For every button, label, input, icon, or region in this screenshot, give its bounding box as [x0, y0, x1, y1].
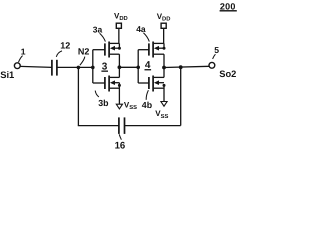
- wire: inverter 3 output to inverter 4 gate line: [119, 66, 138, 68]
- label 16: [115, 134, 126, 151]
- svg-text:N2: N2: [78, 47, 90, 57]
- label 5: [213, 45, 220, 59]
- transistor 3a (PMOS): [105, 42, 121, 58]
- transistor 3b (NMOS): [105, 76, 121, 92]
- svg-text:3a: 3a: [93, 24, 103, 34]
- wire: feedback left vertical (from N2 down): [77, 67, 79, 125]
- terminal 5 (So2 output circle): [209, 62, 215, 68]
- wire: feedback bottom right segment: [125, 125, 181, 127]
- label 4b: [142, 90, 153, 110]
- node N2 (junction dot, feedback tap): [77, 66, 81, 70]
- node: output feedback tap: [179, 65, 183, 69]
- wire: inverter 4 output to terminal 5: [164, 66, 209, 67]
- label 200: [220, 2, 237, 12]
- inverter 4 output node: [162, 54, 166, 77]
- transistor 4b (NMOS): [149, 76, 166, 92]
- svg-text:12: 12: [60, 41, 70, 51]
- VSS supply (inverter 3): [116, 83, 137, 112]
- svg-text:VSS: VSS: [155, 109, 168, 120]
- svg-text:VSS: VSS: [124, 101, 137, 112]
- label 4a: [136, 24, 149, 42]
- node: gate line junction on input wire: [91, 66, 95, 70]
- svg-text:So2: So2: [219, 69, 236, 79]
- svg-text:4b: 4b: [142, 100, 153, 110]
- svg-text:Si1: Si1: [0, 69, 14, 80]
- capacitor C12: [52, 60, 57, 76]
- VDD supply (inverter 4): [157, 12, 171, 48]
- svg-text:16: 16: [115, 141, 126, 152]
- inverter 4 gate line: [138, 50, 149, 83]
- svg-text:4a: 4a: [136, 24, 146, 34]
- label 1: [19, 46, 26, 62]
- label N2: [78, 47, 90, 66]
- node: inverter 4 gate junction: [136, 66, 140, 70]
- terminal 1 (Si1 input circle): [14, 63, 20, 69]
- wire: feedback bottom left segment: [78, 125, 119, 127]
- svg-text:5: 5: [214, 45, 219, 55]
- label 3a: [93, 24, 106, 41]
- wire: capacitor 12 to node N2 and gate line: [57, 66, 93, 68]
- label 12: [56, 41, 70, 57]
- label 4 (inverter 4): [145, 60, 152, 71]
- capacitor C16: [119, 117, 125, 133]
- wire: feedback right vertical (up to output): [180, 67, 182, 125]
- VSS supply (inverter 4): [155, 85, 168, 119]
- VDD supply (inverter 3): [114, 11, 128, 48]
- transistor 4a (PMOS): [149, 42, 166, 58]
- inverter 3 output node: [118, 54, 122, 77]
- svg-text:1: 1: [21, 46, 26, 56]
- wire: input terminal to capacitor 12: [20, 65, 52, 68]
- label 3b: [95, 91, 109, 108]
- label 3 (inverter 3): [101, 61, 108, 72]
- inverter 3 gate line: [93, 50, 105, 83]
- svg-text:VDD: VDD: [157, 12, 171, 23]
- svg-text:3b: 3b: [98, 98, 109, 108]
- svg-text:VDD: VDD: [114, 11, 128, 22]
